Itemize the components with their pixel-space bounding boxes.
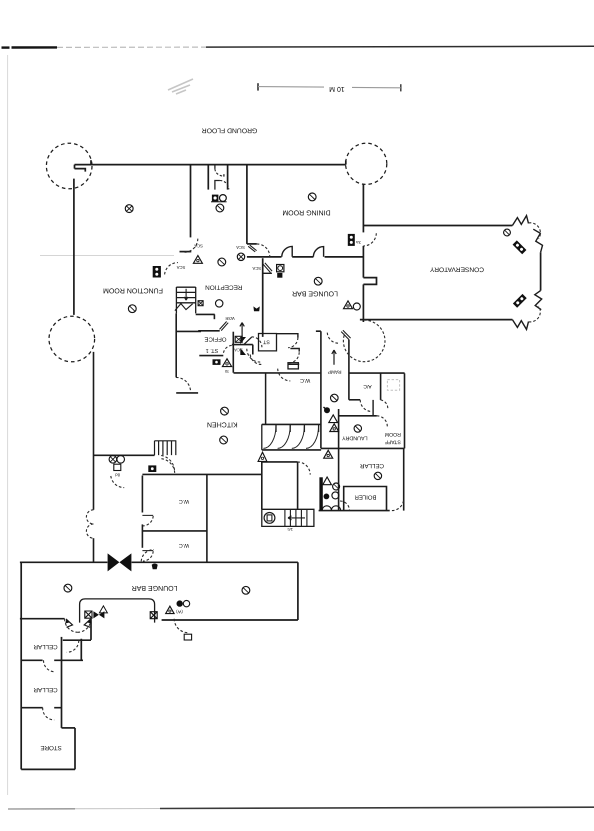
wall: ramp bottom wall	[349, 399, 360, 401]
symbol: black dot boiler area	[324, 494, 330, 500]
door arc: wc below	[278, 369, 291, 381]
door leaf: lounge nw tick	[263, 272, 272, 274]
wall: wc comb top wall	[262, 423, 321, 425]
wall: boiler room outline	[344, 487, 387, 511]
symbol: paired circles near lounge right cluster	[177, 600, 190, 606]
svg-text:CELLAR: CELLAR	[33, 643, 58, 650]
door arc: entrance door leaf arc left	[65, 619, 78, 633]
wall: store bottom wall	[21, 768, 75, 770]
door arc: big garden door arc	[343, 320, 385, 362]
door arc: wc room door 1	[142, 514, 153, 516]
door arc: boiler west door	[340, 501, 350, 510]
wall: wc divider wall	[142, 530, 207, 532]
label: GROUND FLOOR title (rotated)	[202, 126, 258, 133]
wall: ac left cell east wall	[372, 400, 374, 416]
scan artifact: top horizontal rule faint middle segment	[57, 46, 206, 48]
door arc: cellar1 door	[43, 660, 55, 672]
room labels (all rotated 180)	[103, 209, 484, 591]
door arc: corridor bay bump 2	[86, 524, 93, 538]
door arc: reception right door	[257, 244, 270, 257]
door arc: dining to conservatory door	[363, 233, 376, 246]
door leaf: dining sw diagonal	[248, 245, 256, 252]
symbol: black blob at lounge wall	[152, 564, 158, 570]
wall: lobby bottom wall	[63, 639, 91, 641]
scan artifact: top horizontal rule dark segment 2	[12, 46, 58, 48]
svg-text:LAUNDRY: LAUNDRY	[342, 435, 368, 441]
wall: store east wall	[74, 728, 76, 770]
symbol: entrance black flags	[65, 619, 70, 623]
wall: ac strip top wall	[234, 372, 405, 374]
wall: corridor bottom wall	[94, 454, 155, 456]
wall: dining room right wall upper	[362, 184, 364, 233]
svg-text:ST. 1: ST. 1	[206, 347, 219, 353]
door leaf: office right diagonal	[244, 337, 251, 344]
svg-text:ST: ST	[262, 339, 269, 345]
door arc: ac room door	[360, 400, 372, 412]
wall: conservatory bottom	[360, 319, 513, 321]
svg-text:W.C: W.C	[179, 498, 189, 504]
door arc: entrance door leaf arc right	[78, 619, 91, 633]
door leaf: office ne diagonal	[220, 322, 229, 331]
fire door: function room (black with dots)	[153, 266, 161, 278]
scan artifact: bottom border left segment	[8, 808, 75, 810]
door arc: wc comb cubicle doors	[263, 426, 318, 449]
wall: office right wall	[232, 332, 234, 373]
wall: tick at tower junction	[90, 160, 92, 164]
vestibule double door leaves	[215, 165, 229, 189]
wall: kitchen/wc bottom wall	[142, 473, 262, 475]
wall: servery east wall	[297, 462, 299, 509]
door arc: conservatory bay bottom opening	[529, 306, 541, 322]
wall: entrance wall left of doors	[20, 618, 65, 620]
wall: wc west wall lower	[141, 531, 143, 548]
door leaf: vestibule bottom leaf	[215, 181, 220, 190]
svg-text:A/C: A/C	[363, 383, 372, 389]
scan artifact: left page-edge faint vertical line	[7, 55, 9, 795]
svg-text:ROOM: ROOM	[385, 431, 401, 437]
svg-text:3a: 3a	[356, 240, 361, 245]
scan artifact: gray pencil smudge	[168, 79, 193, 94]
door arc: wc door above lounge wall	[141, 550, 154, 562]
symbol: black dot with tail (ramp area)	[324, 407, 331, 413]
wall: conservatory bay upper-right facet	[533, 229, 542, 252]
svg-text:RAMP: RAMP	[328, 369, 342, 375]
wall: staff block east wall	[404, 373, 406, 448]
wall: function room left wall	[73, 179, 75, 315]
wall: lounge bar bottom wall	[162, 619, 298, 621]
scan artifact: faint fold line in function room	[40, 255, 174, 257]
wall: lounge bar left wall	[262, 258, 264, 337]
door arc: reception left door	[183, 239, 198, 253]
wall: lobby east wall	[90, 619, 92, 640]
wall: dining-lounge divider segment 2	[292, 256, 313, 258]
faint pencil box in ac room	[387, 380, 399, 391]
wall: cellar1 bottom wall	[21, 639, 83, 661]
wall: ac room divider	[380, 373, 382, 400]
wall: wc comb bottom wall	[262, 449, 321, 451]
scale bar: left tick	[257, 83, 259, 90]
wall: office/st divider	[232, 344, 253, 346]
door arc: cellar2 door	[43, 708, 55, 720]
wall: dining-lounge divider segment 1	[247, 256, 282, 258]
door leaves: entrance double door zigzag	[66, 619, 91, 627]
svg-text:KITCHEN: KITCHEN	[207, 420, 238, 427]
scan artifact: bottom border right dark segment	[160, 807, 594, 808]
wall: dining-lounge divider segment 3	[325, 256, 364, 258]
door leaf: vestibule top leaf	[214, 165, 216, 169]
tower circle top-right (dashed)	[346, 143, 387, 184]
svg-text:(W): (W)	[176, 609, 183, 614]
svg-text:10 M: 10 M	[329, 85, 345, 92]
wall: laundry top wall	[339, 415, 377, 417]
fire door: conservatory bottom rotated leaf	[513, 294, 527, 308]
svg-text:CELLAR: CELLAR	[359, 462, 384, 469]
door arc: cellar entry door	[297, 462, 310, 475]
fire door: corridor door by wc (black)	[148, 465, 156, 472]
door arc: wc cell 2	[289, 352, 299, 363]
wall: vestibule right jamb	[227, 165, 229, 190]
door arc: lounge right cluster door	[174, 619, 188, 633]
stairs: kitchen back stairs	[155, 441, 177, 456]
door: lounge bar double-action bowtie door	[108, 553, 132, 571]
symbol: bar bowtie small black	[93, 611, 104, 618]
door leaf: lounge nw diagonal	[263, 263, 272, 273]
wall: cellar bottom wall	[319, 510, 390, 512]
wall: kitchen west recess wall	[176, 392, 198, 394]
door: st room black leaves	[240, 337, 246, 355]
wall: jog into conservatory	[363, 278, 376, 285]
wall: chimney black wall	[319, 477, 322, 510]
wall: lounge bar east wall	[297, 562, 299, 620]
wall: top wall left notch	[75, 165, 86, 172]
symbols: warning triangles	[99, 256, 352, 614]
svg-text:CELLAR: CELLAR	[33, 686, 58, 693]
svg-text:SCA: SCA	[234, 347, 243, 352]
door arc: boiler corner door	[392, 499, 404, 511]
wall: office corridor wall	[252, 345, 254, 355]
door arc: ramp west leaf arc	[327, 333, 339, 344]
door arc: kitchen nw door	[176, 377, 191, 392]
scale bar: line left part	[258, 86, 324, 89]
wall: comb room west wall	[265, 373, 267, 424]
wall: cellar east wall	[403, 448, 405, 510]
symbols: small squares	[114, 265, 284, 641]
wall: reception right wall foot	[247, 243, 257, 245]
svg-text:Si: Si	[225, 369, 229, 374]
svg-text:STORE: STORE	[40, 744, 61, 751]
fire door: conservatory top rotated leaf	[513, 240, 527, 254]
svg-text:RECEPTION: RECEPTION	[205, 284, 243, 291]
wall: office top wall	[198, 330, 220, 332]
door arc: dining divider door 2 (solid)	[313, 247, 323, 257]
wall: lounge bar right wall	[362, 284, 364, 322]
wall: st room box	[259, 334, 277, 351]
symbols: circled devices (smoke detectors etc)	[64, 193, 510, 594]
symbol: scalloped bumps below boiler wall	[322, 506, 340, 511]
wall: laundry west wall	[338, 409, 340, 511]
wall: conservatory top	[363, 225, 512, 227]
door arc: corridor bay bump 1	[86, 510, 93, 524]
scan artifact: top horizontal rule dark right segment	[206, 45, 594, 48]
svg-text:W3R: W3R	[225, 316, 234, 321]
wall: lounge bar top wall right segment	[132, 561, 298, 563]
tower circle top-left (dashed)	[46, 143, 92, 189]
svg-text:OFFICE: OFFICE	[205, 336, 227, 343]
svg-text:LOUNGE BAR: LOUNGE BAR	[292, 289, 338, 296]
door leaf: ramp entry diagonal	[341, 330, 350, 340]
door arc: laundry door	[377, 416, 388, 427]
wall: vestibule left jamb	[207, 165, 209, 190]
wall: reception right wall	[246, 165, 248, 244]
svg-text:1/c: 1/c	[287, 527, 293, 532]
symbol: vestibule black square and circle pair	[211, 195, 227, 202]
stairs: main staircase by reception	[175, 287, 196, 313]
fire door: dining east wall (black with dots)	[348, 234, 355, 246]
wall: cellar inner east wall	[61, 637, 63, 728]
wall: corridor left wall below mid tower	[93, 352, 95, 510]
svg-text:SCA: SCA	[194, 243, 203, 248]
svg-text:BOILER: BOILER	[354, 493, 377, 500]
wall: dining room right wall mid	[362, 246, 364, 278]
door arc: conservatory bay top opening	[529, 223, 541, 239]
door arc: kitchen servery door	[161, 459, 174, 474]
svg-text:GROUND FLOOR: GROUND FLOOR	[202, 126, 258, 133]
wall: wc comb dividers	[262, 424, 319, 450]
door arc: ac room door 2	[381, 400, 388, 409]
tower circle mid-left (dashed)	[49, 316, 95, 362]
wall: store top jog	[62, 727, 76, 729]
wall: conservatory bay top facet	[512, 216, 528, 226]
wall: wc west wall upper	[141, 476, 143, 513]
svg-text:W.C: W.C	[300, 377, 310, 383]
wall: conservatory bay bottom facet	[512, 320, 528, 330]
wall: cellar west wall	[261, 462, 263, 509]
scale bar: line right part	[352, 86, 401, 88]
svg-text:8d: 8d	[115, 472, 120, 477]
wall: kitchen west wall	[175, 313, 177, 377]
wall: wc west wall mid	[141, 524, 143, 531]
wall: ramp corridor east wall	[348, 340, 350, 400]
wall: staff block bottom wall	[321, 447, 405, 449]
door arc: office door	[252, 337, 262, 347]
svg-text:W.C: W.C	[179, 542, 189, 548]
stairs: cellar staircase	[262, 509, 314, 526]
scale bar: right tick	[400, 84, 402, 91]
symbol: crossed boxes in bar area	[85, 611, 157, 619]
door arc: kitchen stairs door	[161, 455, 174, 472]
bar counter rounded outline	[80, 599, 155, 623]
wall: ramp corridor west wall with tick	[316, 331, 321, 448]
scan artifact: top horizontal rule dark left segment	[2, 46, 10, 48]
door arc: lobby to cellar door	[67, 640, 79, 652]
label: 10 M scale text (rotated)	[329, 85, 345, 92]
wall: main top wall	[75, 164, 346, 166]
fixture: kitchen sink box	[288, 363, 298, 369]
wall: reception left wall	[190, 165, 192, 238]
wall: conservatory bay lower-right facet	[535, 291, 542, 310]
ramp arrow	[332, 350, 336, 365]
office arrow	[240, 323, 244, 337]
wall: wc cells top wall	[277, 334, 300, 365]
scan artifact: bottom border middle faint segment	[75, 808, 160, 810]
wall: reception left door stub	[180, 251, 192, 253]
wall: lounge bar top wall left segment	[20, 561, 108, 563]
wall: st room bottom wall	[199, 355, 223, 357]
door arc: wc room door 2	[142, 550, 153, 552]
svg-text:CONSERVATORY: CONSERVATORY	[429, 266, 484, 273]
wall: corridor left wall lower part	[93, 538, 95, 562]
symbol: black wing by reception east wall	[253, 306, 259, 311]
door arc: dining divider door 1 (solid)	[282, 246, 292, 256]
wall: conservatory bay right wall	[540, 252, 542, 290]
door arc: corridor door at 8d	[111, 476, 124, 488]
door arc: wc cell 1	[288, 338, 298, 348]
svg-text:SCA: SCA	[176, 265, 185, 270]
door arc: st room door	[247, 349, 260, 362]
wall: west outer wall lower block	[20, 562, 22, 769]
svg-text:LOUNGE BAR: LOUNGE BAR	[132, 584, 178, 591]
door arc: st1 door	[250, 354, 261, 364]
svg-text:SCA: SCA	[252, 266, 261, 271]
door arc: function room door	[165, 263, 178, 275]
svg-text:STAFF: STAFF	[385, 439, 401, 445]
wall: top wall right end tick	[345, 160, 347, 164]
svg-text:DINING ROOM: DINING ROOM	[282, 209, 330, 216]
wall: kitchen top wall	[176, 330, 201, 332]
svg-text:FUNCTION ROOM: FUNCTION ROOM	[103, 287, 163, 294]
svg-text:SCA: SCA	[236, 245, 245, 250]
wall: cellar entry top wall	[262, 461, 298, 463]
wall: cellar2 bottom wall	[21, 707, 61, 709]
wall: wc east wall	[206, 474, 208, 562]
